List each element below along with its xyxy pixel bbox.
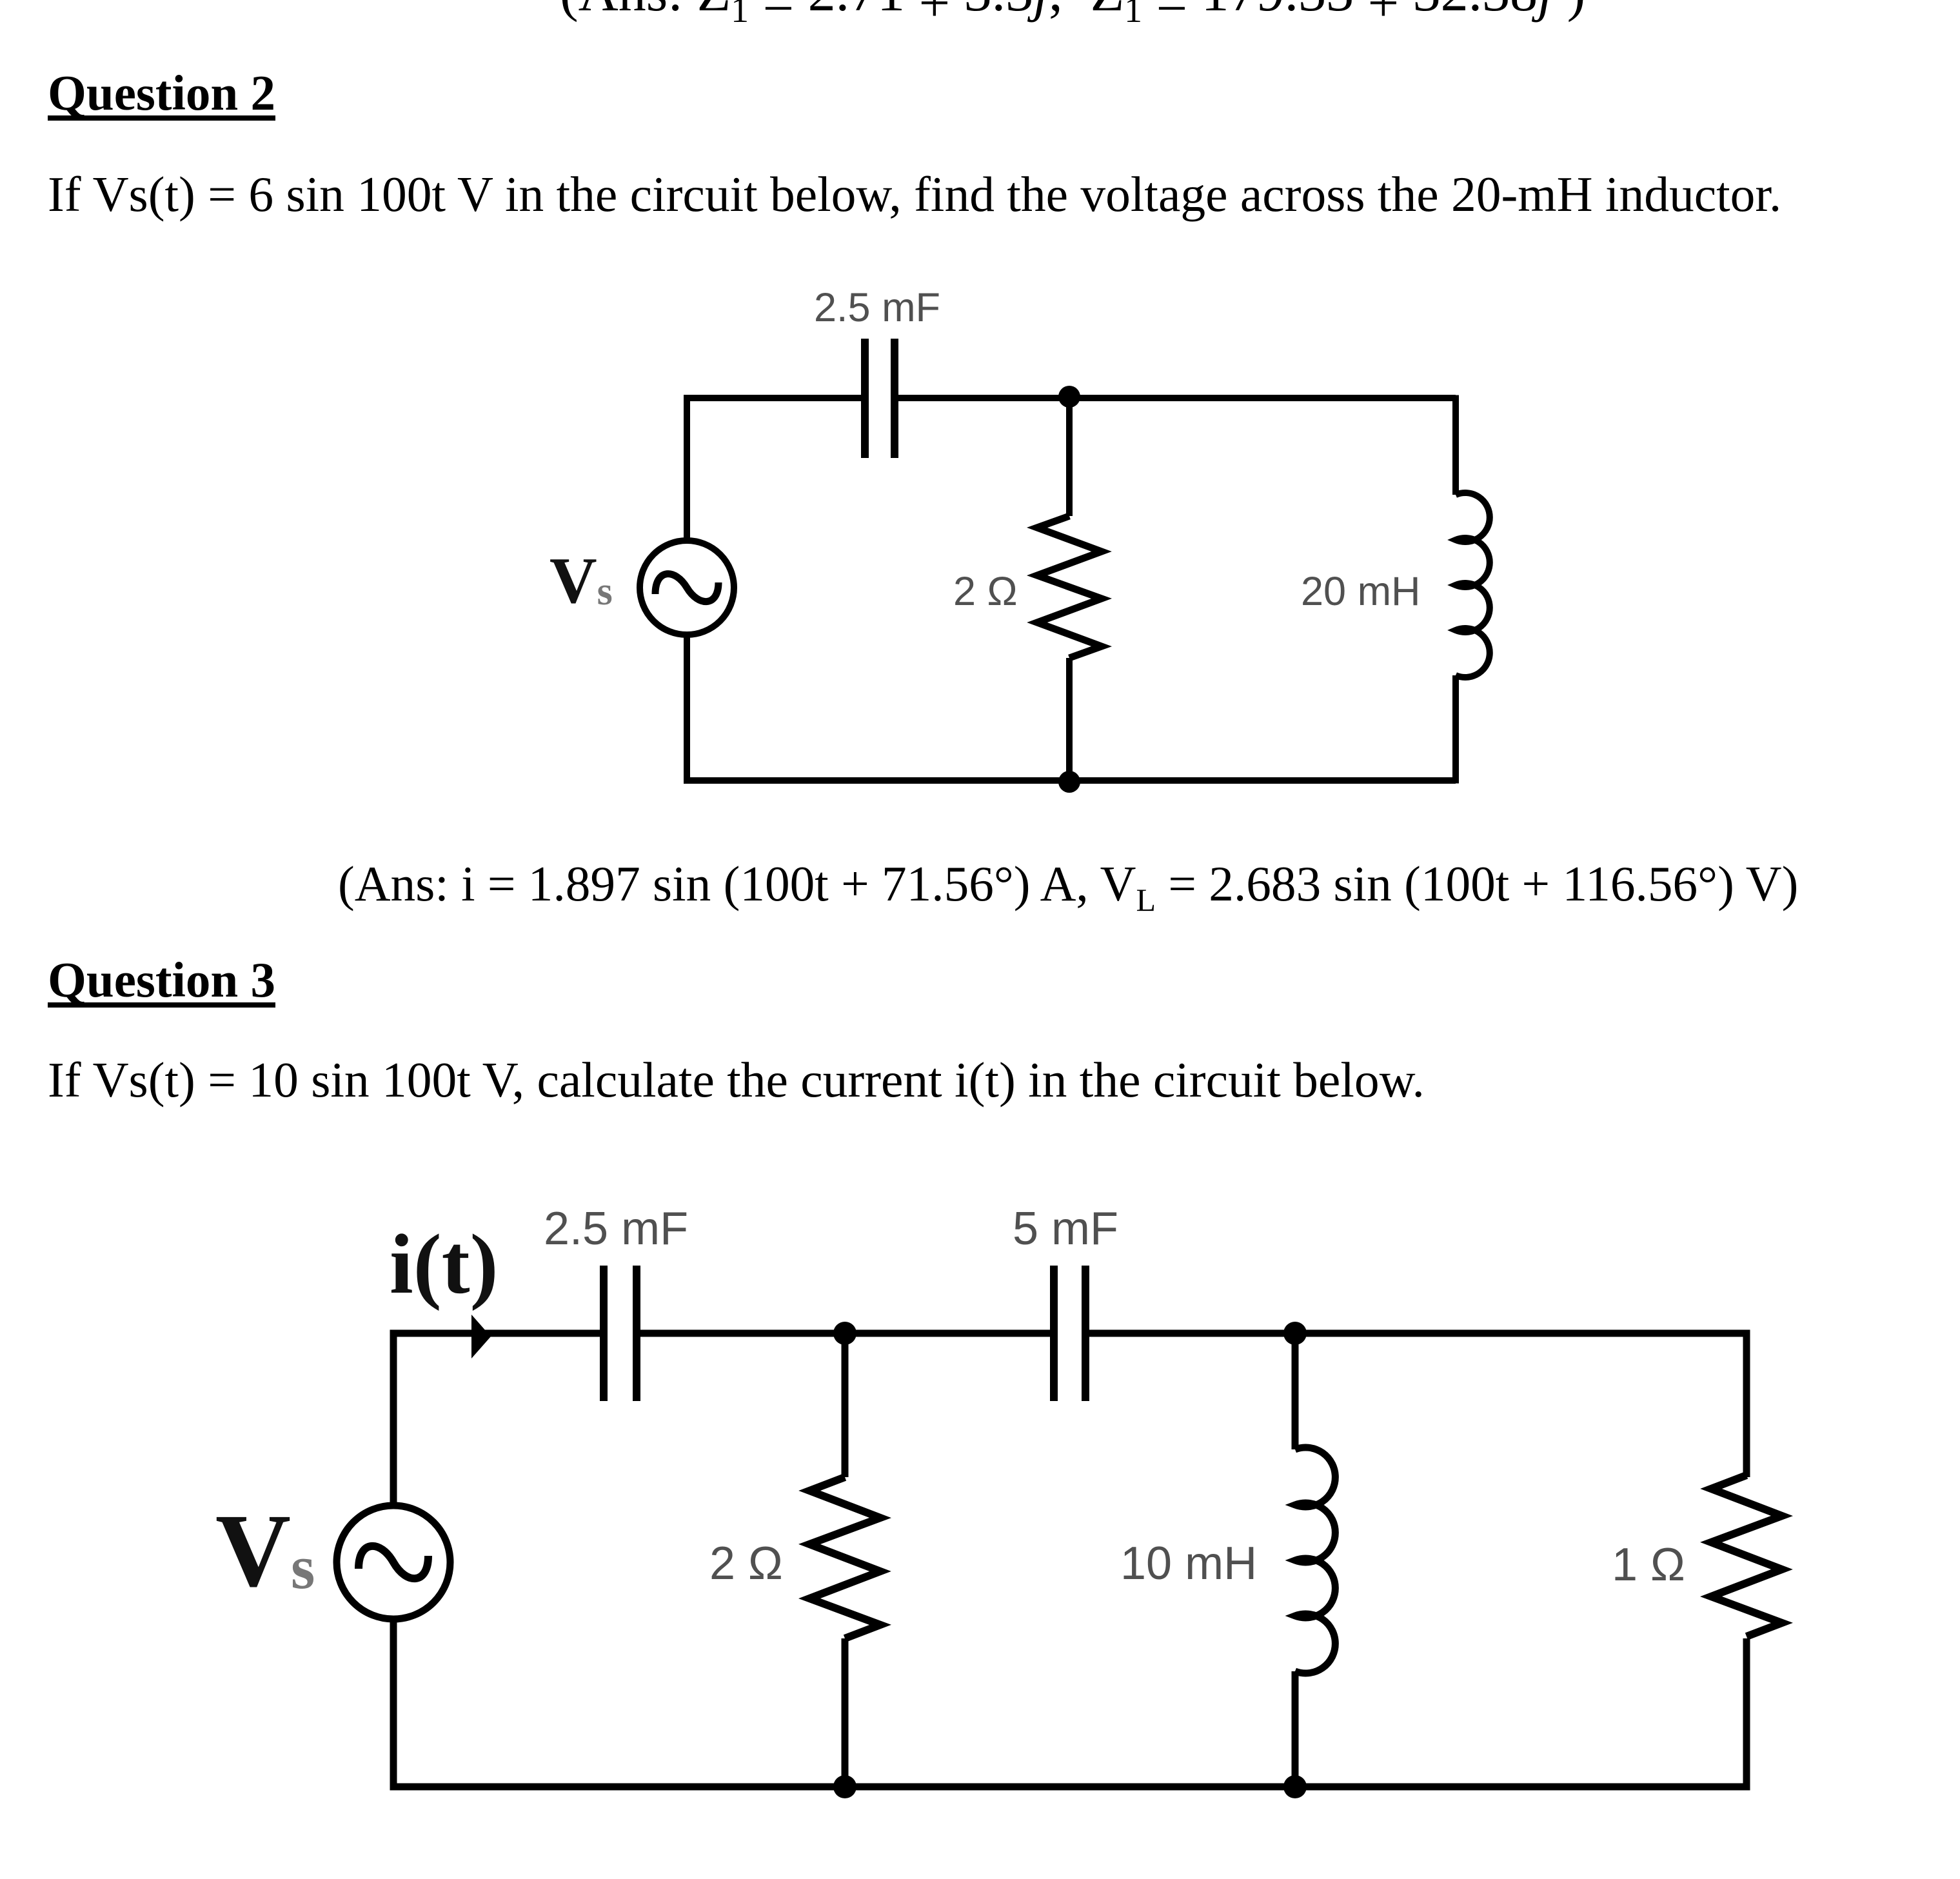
wire top: cap1 to cap2 [640, 1330, 1051, 1337]
wire resistor branch top [1066, 398, 1073, 516]
svg-text:i(t): i(t) [390, 1217, 499, 1311]
current arrow i(t) [471, 1315, 491, 1358]
svg-text:5 mF: 5 mF [1013, 1203, 1118, 1255]
wire top: cap2 to right corner [1089, 1330, 1747, 1337]
wire resistor branch bottom [1066, 658, 1073, 780]
wire 2ohm branch bottom [842, 1638, 849, 1787]
svg-text:20 mH: 20 mH [1301, 569, 1421, 614]
wire top right segment [898, 395, 1456, 401]
node dot top left [833, 1322, 856, 1345]
wire bottom [393, 1784, 1747, 1791]
resistor 1 ohm zigzag [1711, 1475, 1782, 1636]
wire right vertical above inductor [1452, 395, 1459, 495]
svg-text:2.5 mF: 2.5 mF [544, 1203, 688, 1255]
wire top left segment [687, 395, 862, 401]
wire 10mH branch top [1292, 1333, 1299, 1449]
node dot bottom [1058, 771, 1080, 793]
svg-text:1 Ω: 1 Ω [1612, 1539, 1685, 1591]
resistor 2 ohm zigzag [809, 1477, 880, 1638]
source Vs sine [655, 574, 718, 602]
node dot top right [1283, 1322, 1307, 1345]
node dot bottom left [833, 1775, 856, 1798]
wire 10mH branch bottom [1292, 1671, 1299, 1787]
capacitor C 2.5mF plates [865, 339, 895, 458]
svg-text:10 mH: 10 mH [1120, 1538, 1257, 1589]
wire left vertical below source [390, 1619, 397, 1791]
wire right vertical above 1ohm [1743, 1330, 1750, 1478]
wire right vertical below inductor [1452, 675, 1459, 784]
svg-text:(Ans: i = 1.897 sin (100t + 71: (Ans: i = 1.897 sin (100t + 71.56°) A, V… [338, 856, 1798, 918]
resistor R 2ohm zigzag [1037, 516, 1102, 658]
inductor L 20mH coil [1456, 493, 1490, 677]
node dot top [1058, 386, 1080, 408]
inductor 10 mH coil [1295, 1447, 1335, 1673]
svg-text:If Vs(t) = 10 sin 100t V, calc: If Vs(t) = 10 sin 100t V, calculate the … [48, 1052, 1425, 1108]
wire left vertical below source [684, 635, 690, 784]
svg-text:Question 2: Question 2 [48, 65, 275, 121]
wire right vertical below 1ohm [1743, 1638, 1750, 1791]
wire top: source to cap1 [393, 1330, 600, 1337]
capacitor 5 mF plates [1054, 1266, 1085, 1401]
capacitor 2.5 mF plates [604, 1266, 637, 1401]
source Vs circle [337, 1506, 450, 1619]
svg-text:2.5 mF: 2.5 mF [814, 285, 940, 330]
wire left vertical above source [390, 1330, 397, 1506]
wire bottom [687, 777, 1456, 784]
svg-text:2 Ω: 2 Ω [709, 1538, 783, 1589]
svg-text:2 Ω: 2 Ω [953, 569, 1018, 614]
wire left vertical above source [684, 395, 690, 541]
node dot bottom right [1283, 1775, 1307, 1798]
svg-text:If Vs(t) = 6 sin 100t V in the: If Vs(t) = 6 sin 100t V in the circuit b… [48, 166, 1781, 222]
source Vs sine [359, 1546, 428, 1578]
svg-text:Question 3: Question 3 [48, 952, 275, 1008]
wire 2ohm branch top [842, 1333, 849, 1477]
source Vs circle [640, 541, 734, 635]
